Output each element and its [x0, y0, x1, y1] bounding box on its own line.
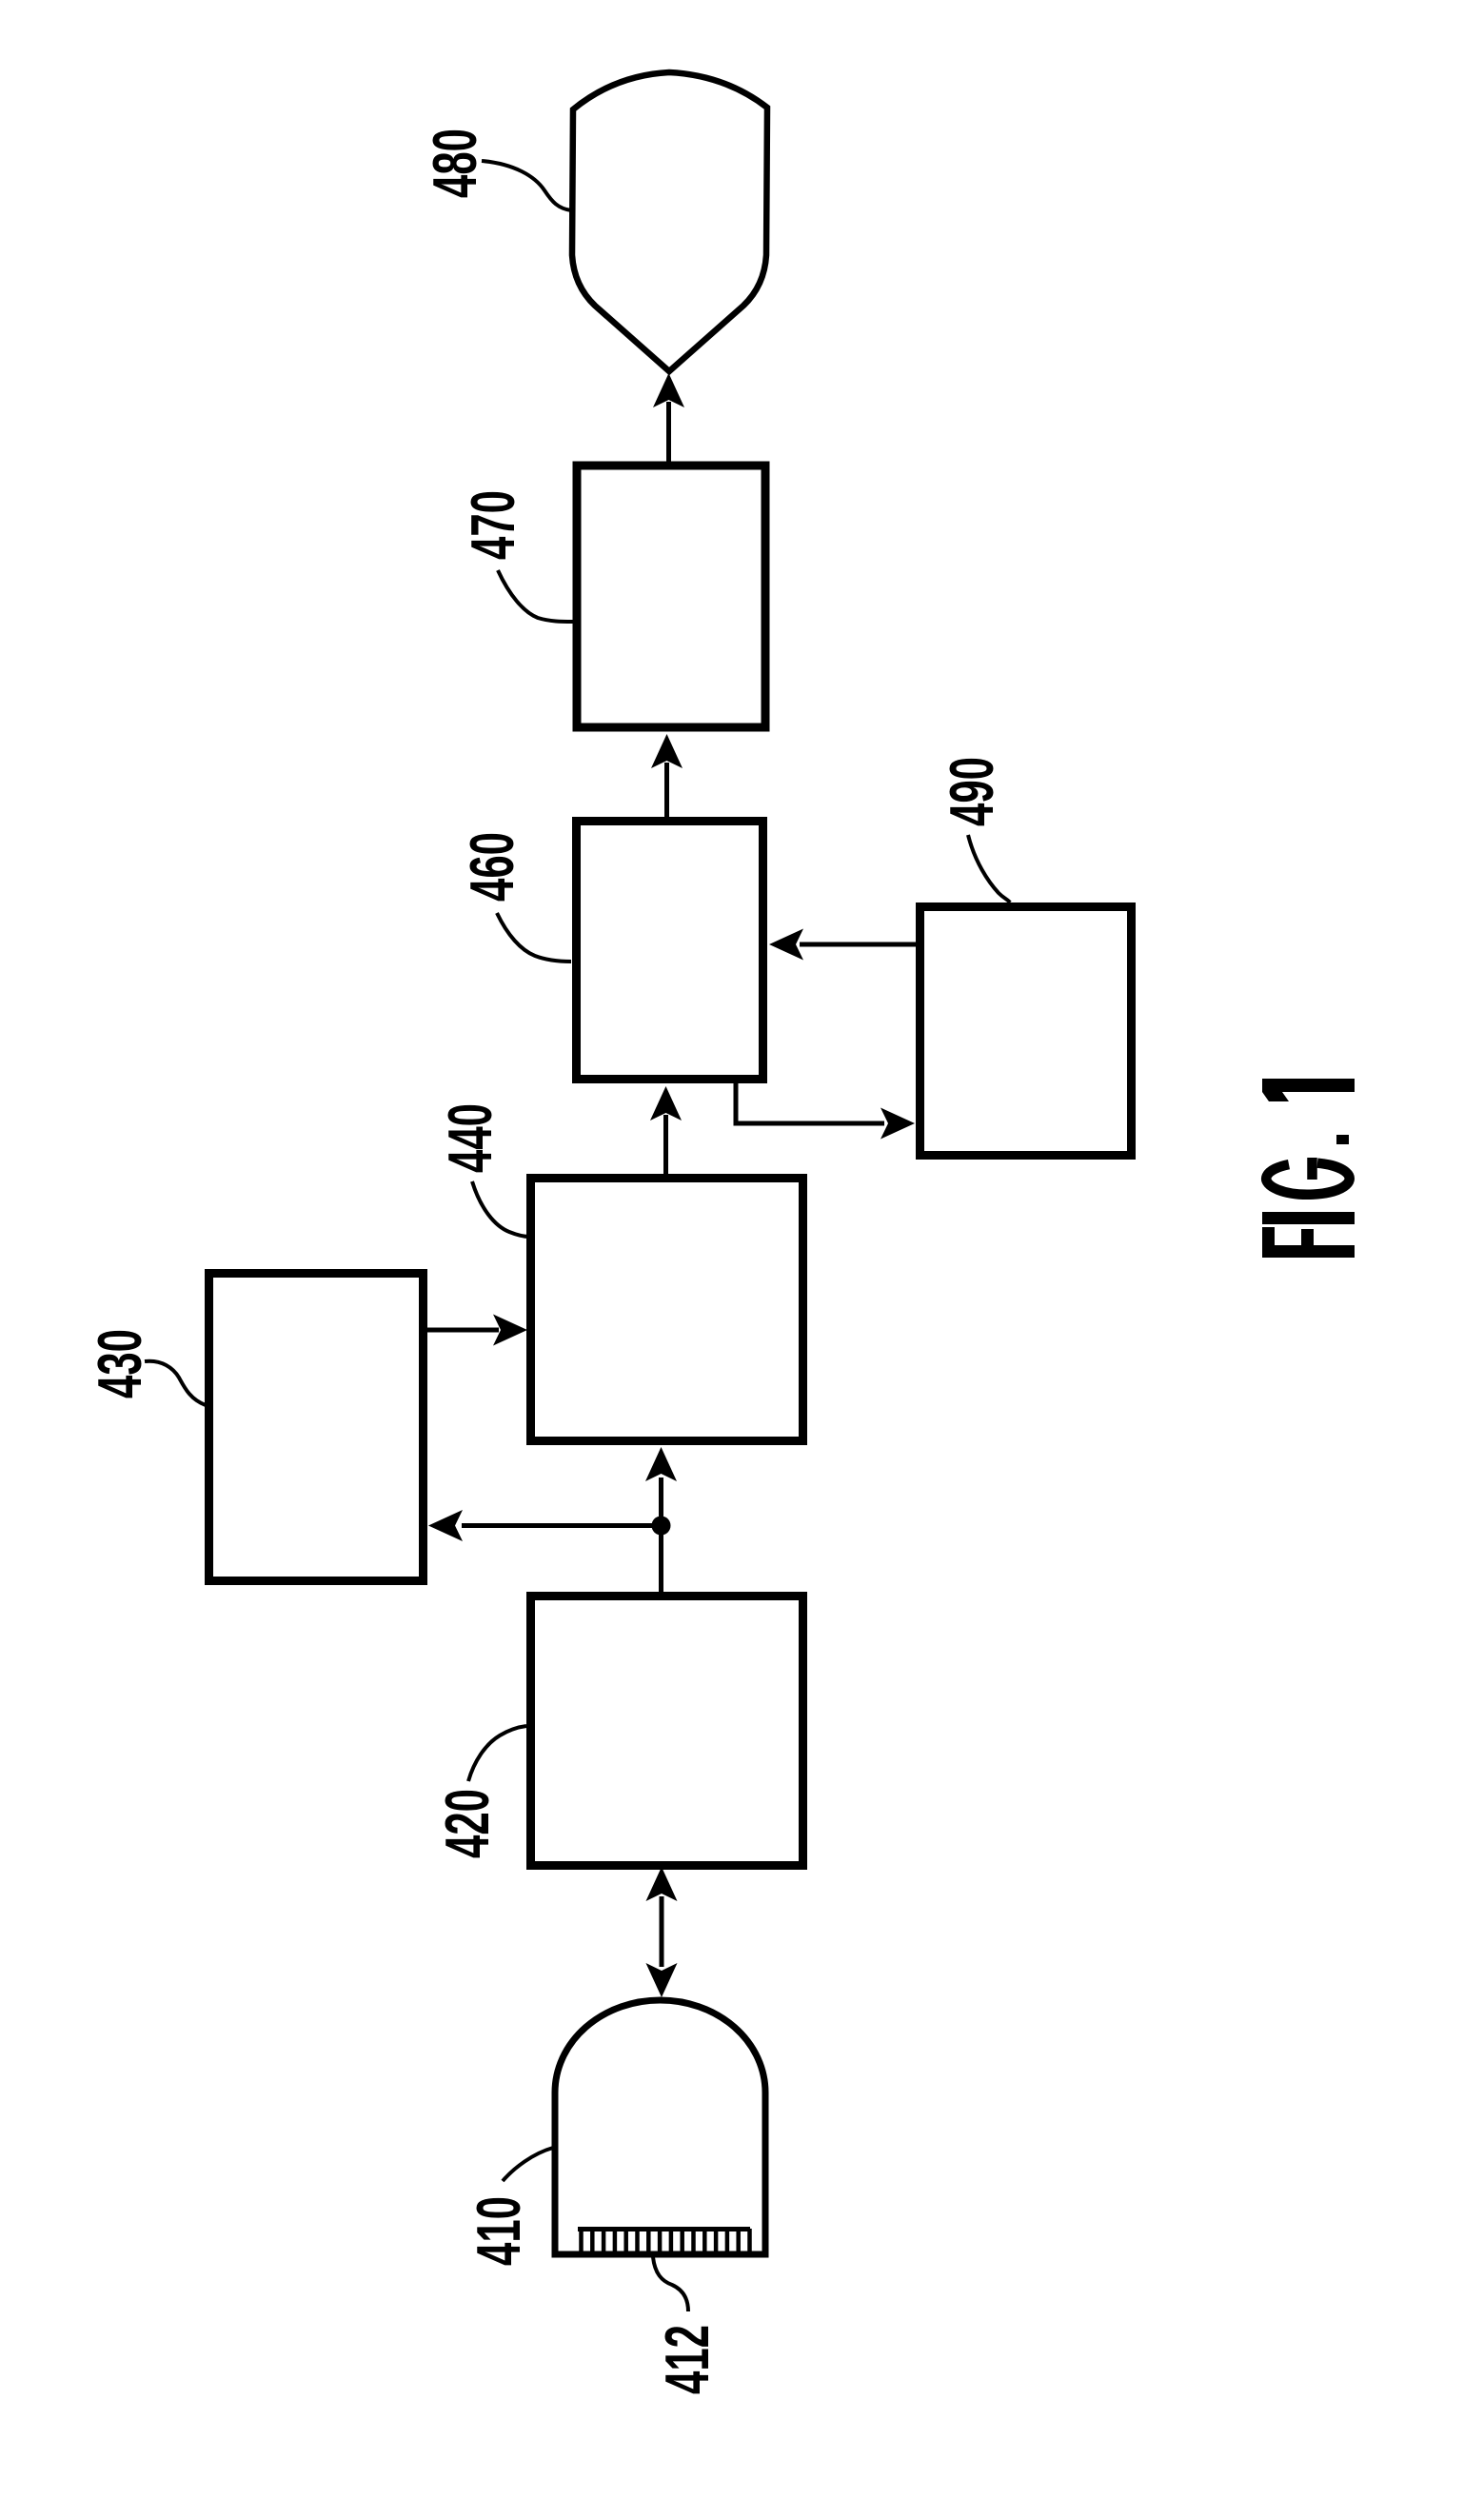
- wire 470 to shield: [666, 402, 671, 462]
- arrowhead up into shield: [653, 373, 684, 407]
- arrowhead right into 490: [881, 1108, 915, 1140]
- arrowhead right into 440: [493, 1315, 527, 1346]
- svg-text:470: 470: [458, 490, 527, 560]
- svg-text:490: 490: [937, 757, 1006, 826]
- leader 410: [503, 2148, 553, 2181]
- arrowhead up into 460: [650, 1086, 682, 1121]
- arrowhead left into 430: [428, 1510, 463, 1541]
- display shield 480: [572, 72, 767, 371]
- wire 430 to 440: [427, 1328, 499, 1333]
- svg-text:460: 460: [457, 832, 526, 902]
- svg-text:430: 430: [85, 1329, 154, 1398]
- wire 460 to 470: [664, 763, 669, 817]
- svg-text:412: 412: [652, 2325, 722, 2394]
- transducer element strip 412: [578, 2227, 750, 2231]
- wire 490 to 460: [800, 942, 917, 947]
- svg-text:480: 480: [420, 129, 489, 198]
- box 460: [577, 822, 763, 1080]
- leader 460: [497, 913, 571, 962]
- leader 480: [482, 161, 571, 210]
- leader 470: [498, 570, 573, 622]
- wire junction to 430: [462, 1523, 662, 1528]
- arrowhead left into 460: [769, 929, 803, 961]
- arrowhead up into 420: [646, 1867, 678, 1901]
- svg-text:410: 410: [464, 2196, 533, 2266]
- leader 440: [472, 1181, 529, 1237]
- leader 430: [145, 1361, 206, 1405]
- wire 460 to 490: [736, 1081, 884, 1123]
- box 440: [531, 1179, 803, 1441]
- arrowhead down to probe: [646, 1963, 678, 1997]
- arrowhead up into 440: [645, 1447, 677, 1481]
- box 490: [920, 907, 1132, 1156]
- transducer probe 410: [555, 2000, 765, 2254]
- box 430: [209, 1274, 424, 1581]
- svg-text:420: 420: [432, 1789, 502, 1858]
- box 470: [577, 466, 765, 727]
- figure caption FIG. 1: [1262, 1079, 1355, 1258]
- leader 412: [653, 2257, 688, 2311]
- arrowhead up into 470: [651, 734, 683, 768]
- box 420: [531, 1597, 803, 1866]
- junction node: [652, 1517, 671, 1536]
- leader 490: [968, 835, 1010, 902]
- leader 420: [468, 1726, 526, 1781]
- double arrow 420 to probe: [660, 1896, 664, 1967]
- wire 420 up to 440: [659, 1478, 663, 1592]
- wire 440 to 460: [663, 1115, 668, 1174]
- svg-text:440: 440: [435, 1103, 505, 1173]
